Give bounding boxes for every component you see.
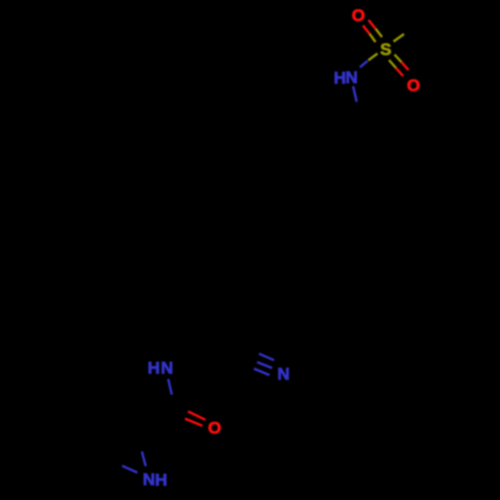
svg-text:S: S bbox=[380, 40, 391, 59]
svg-text:O: O bbox=[352, 6, 365, 25]
svg-text:N: N bbox=[161, 359, 173, 378]
svg-text:N: N bbox=[346, 68, 358, 87]
svg-text:H: H bbox=[334, 69, 346, 88]
svg-text:H: H bbox=[148, 359, 160, 378]
svg-text:H: H bbox=[155, 471, 167, 490]
svg-text:O: O bbox=[407, 76, 420, 95]
svg-text:N: N bbox=[277, 365, 289, 384]
svg-text:N: N bbox=[143, 470, 155, 489]
svg-text:O: O bbox=[208, 419, 221, 438]
